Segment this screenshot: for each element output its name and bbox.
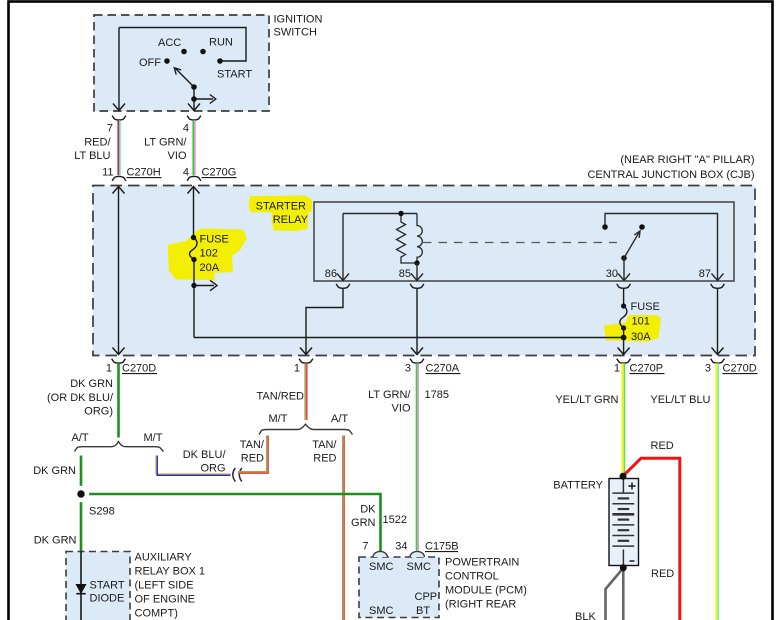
svg-text:11: 11	[102, 167, 113, 179]
svg-text:1785: 1785	[425, 389, 449, 401]
svg-text:CPP: CPP	[415, 591, 438, 603]
svg-text:102: 102	[200, 248, 218, 260]
battery plus terminal	[629, 483, 636, 490]
svg-text:BT: BT	[416, 605, 430, 617]
svg-text:IGNITION: IGNITION	[274, 14, 323, 26]
highlight FUSE 101	[604, 315, 661, 342]
svg-text:SMC: SMC	[407, 561, 432, 573]
battery minus terminal	[630, 560, 635, 562]
connector cup below CJB pin3 C270D right	[711, 359, 725, 363]
svg-text:TAN/RED: TAN/RED	[257, 391, 305, 403]
junction node fuse101 / feed	[621, 335, 627, 341]
start diode	[80, 552, 82, 620]
svg-text:LT GRN/: LT GRN/	[144, 137, 187, 149]
pin 30 wire	[623, 258, 625, 280]
svg-text:BATTERY: BATTERY	[553, 480, 603, 492]
node ACC	[181, 49, 187, 55]
relay coil side wiring	[343, 213, 417, 215]
svg-text:OFF: OFF	[139, 57, 161, 69]
svg-text:LT BLU: LT BLU	[74, 150, 110, 162]
wire RED battery feed	[624, 458, 680, 620]
svg-text:COMPT): COMPT)	[135, 608, 178, 620]
svg-text:LT GRN/: LT GRN/	[368, 389, 411, 401]
svg-text:RELAY BOX 1: RELAY BOX 1	[135, 566, 206, 578]
svg-text:CENTRAL JUNCTION BOX (CJB): CENTRAL JUNCTION BOX (CJB)	[587, 169, 754, 181]
svg-text:VIO: VIO	[168, 150, 187, 162]
fuse 102 branch wire	[193, 187, 195, 237]
svg-text:FUSE: FUSE	[200, 234, 229, 246]
battery negative node	[620, 564, 627, 571]
feed node	[191, 96, 197, 102]
wire LT GRN/VIO pin4 to C270G	[193, 120, 195, 175]
connector cup below relay pin 87	[711, 284, 725, 288]
highlight FUSE 102	[168, 229, 248, 281]
svg-text:3: 3	[705, 363, 711, 375]
svg-text:DK GRN: DK GRN	[70, 378, 113, 390]
battery positive node	[620, 473, 627, 480]
wire TAN/RED CJB pin1 to split	[305, 363, 307, 420]
svg-text:DK: DK	[360, 504, 376, 516]
svg-text:START: START	[90, 580, 125, 592]
svg-text:C270D: C270D	[723, 363, 757, 375]
node RUN	[200, 49, 206, 55]
fuse 101	[621, 303, 626, 308]
svg-text:SWITCH: SWITCH	[274, 27, 317, 39]
svg-text:85: 85	[399, 268, 411, 280]
arrow down pin 4 exit	[188, 104, 200, 111]
svg-text:1522: 1522	[383, 514, 407, 526]
svg-text:SMC: SMC	[369, 605, 394, 617]
svg-text:30: 30	[606, 268, 618, 280]
wire pin87 to C270D pin3	[717, 289, 719, 355]
svg-text:YEL/LT BLU: YEL/LT BLU	[650, 394, 710, 406]
PCM pin 7 bump	[373, 551, 387, 557]
svg-text:STARTER: STARTER	[256, 201, 306, 213]
svg-text:(OR DK BLU/: (OR DK BLU/	[47, 392, 114, 404]
svg-text:34: 34	[395, 541, 407, 553]
relay coil	[417, 214, 422, 264]
svg-text:POWERTRAIN: POWERTRAIN	[445, 557, 519, 569]
battery cells	[622, 479, 624, 494]
svg-text:START: START	[217, 69, 252, 81]
svg-text:101: 101	[632, 316, 650, 328]
svg-text:1: 1	[106, 363, 112, 375]
connector cup below CJB pin3 C270A	[410, 359, 424, 363]
connector cup below relay pin 30	[617, 284, 631, 288]
wire pin30 to fuse 101	[623, 289, 625, 307]
svg-text:1: 1	[614, 363, 620, 375]
svg-text:4: 4	[183, 123, 189, 135]
pin 86 wire	[342, 214, 344, 281]
svg-text:AUXILIARY: AUXILIARY	[135, 552, 193, 564]
connector dome above CJB pin 4 C270G	[187, 176, 201, 180]
svg-text:7: 7	[362, 541, 368, 553]
svg-text:ORG): ORG)	[84, 405, 113, 417]
PCM pin 34 bump	[410, 551, 424, 557]
wire TAN/RED M/T branch to connector	[238, 436, 268, 474]
wire LT GRN/VIO C270A to PCM pin34	[417, 363, 419, 550]
svg-text:CONTROL: CONTROL	[445, 571, 499, 583]
svg-text:20A: 20A	[200, 262, 220, 274]
connector cup below relay pin 86	[336, 284, 350, 288]
svg-text:(LEFT SIDE: (LEFT SIDE	[135, 580, 194, 592]
svg-text:YEL/LT GRN: YEL/LT GRN	[555, 394, 618, 406]
svg-text:86: 86	[325, 268, 337, 280]
svg-text:S298: S298	[89, 506, 115, 518]
wire DK GRN S298 to start diode	[80, 494, 83, 552]
auxiliary relay box 1	[66, 552, 130, 620]
svg-text:7: 7	[107, 123, 113, 135]
svg-text:RED/: RED/	[84, 137, 111, 149]
svg-text:87: 87	[699, 268, 711, 280]
svg-text:TAN/: TAN/	[240, 439, 265, 451]
ignition switch box	[94, 15, 269, 111]
svg-text:3: 3	[405, 363, 411, 375]
svg-text:DK GRN: DK GRN	[33, 465, 76, 477]
svg-text:RED: RED	[651, 440, 674, 452]
wire YEL/LT BLU C270D to bottom	[717, 363, 719, 620]
svg-text:C270P: C270P	[630, 363, 664, 375]
svg-text:M/T: M/T	[269, 413, 288, 425]
wire TAN/RED A/T branch down	[343, 436, 345, 620]
relay actuation dashed link	[423, 242, 617, 244]
svg-text:30A: 30A	[631, 331, 651, 343]
svg-text:GRN: GRN	[351, 517, 376, 529]
node START	[217, 58, 223, 64]
highlight STARTER RELAY	[249, 196, 313, 232]
relay resistor	[397, 214, 418, 264]
node S298	[73, 486, 89, 502]
pin 85 wire	[416, 263, 418, 280]
wire fuse102 to fuse101 horizontal	[194, 337, 624, 339]
CJB left feed wire C270H to C270D	[118, 187, 120, 354]
svg-text:4: 4	[183, 167, 189, 179]
connector cup below ignition pin 4	[187, 116, 201, 120]
split brace A/T-M/T left	[75, 442, 164, 452]
svg-text:DIODE: DIODE	[90, 593, 125, 605]
wire DK GRN S298 to PCM pin7	[81, 494, 381, 551]
connector cup below CJB pin1 C270D	[112, 359, 126, 363]
svg-text:RED: RED	[313, 453, 336, 465]
svg-text:ACC: ACC	[158, 37, 181, 49]
starter relay box	[314, 202, 734, 281]
svg-text:C270D: C270D	[122, 363, 156, 375]
svg-text:FUSE: FUSE	[631, 301, 660, 313]
svg-text:(RIGHT REAR: (RIGHT REAR	[445, 599, 516, 611]
svg-text:A/T: A/T	[331, 413, 348, 425]
svg-text:DK GRN: DK GRN	[34, 535, 77, 547]
relay switch	[605, 214, 718, 281]
svg-text:VIO: VIO	[392, 403, 411, 415]
svg-text:RELAY: RELAY	[273, 214, 309, 226]
wire DK BLU/ORG M/T branch	[156, 456, 231, 476]
svg-text:RUN: RUN	[209, 36, 233, 48]
svg-text:OF ENGINE: OF ENGINE	[135, 594, 196, 606]
wire DK GRN C270D to split	[117, 363, 120, 437]
svg-text:1: 1	[294, 363, 300, 375]
connector cup below relay pin 85	[410, 284, 424, 288]
svg-text:A/T: A/T	[72, 432, 89, 444]
connector cup below CJB pin1 (starter)	[299, 359, 313, 363]
svg-text:RED: RED	[651, 568, 674, 580]
connector dome above CJB pin 11 C270H	[112, 176, 126, 180]
wire RED/LT BLU pin7 to C270H	[118, 120, 120, 175]
svg-text:SMC: SMC	[369, 561, 394, 573]
svg-text:C270A: C270A	[426, 363, 460, 375]
svg-text:(NEAR RIGHT "A" PILLAR): (NEAR RIGHT "A" PILLAR)	[620, 154, 754, 166]
ignition switch lever	[176, 69, 195, 88]
arrow down pin 7 exit	[113, 104, 125, 111]
ignition internal wire	[119, 28, 246, 110]
svg-text:C175B: C175B	[425, 541, 459, 553]
wire YEL/LT GRN C270P to battery	[623, 363, 625, 475]
pin 87 arrow	[712, 274, 724, 281]
ignition feed arrow right	[194, 98, 213, 100]
svg-text:TAN/: TAN/	[312, 439, 337, 451]
connector cup below ignition pin 7	[112, 116, 126, 120]
split brace M/T-A/T right	[259, 424, 353, 434]
wire pin86 to C270 pin1	[306, 289, 343, 355]
wire DK GRN A/T branch	[80, 456, 83, 494]
svg-text:M/T: M/T	[144, 432, 163, 444]
svg-text:MODULE (PCM): MODULE (PCM)	[445, 585, 527, 597]
switch pivot node	[191, 84, 197, 90]
svg-text:C270H: C270H	[127, 167, 161, 179]
fuse 102 output node with arrow	[193, 260, 195, 338]
connector cup below CJB pin1 C270P	[617, 359, 631, 363]
svg-text:DK BLU/: DK BLU/	[183, 449, 227, 461]
wire BLK battery ground	[622, 568, 625, 620]
powertrain control module PCM box	[359, 557, 439, 618]
wire pin85 to C270A pin3	[416, 289, 418, 355]
fuse 102	[191, 235, 196, 240]
svg-text:C270G: C270G	[202, 167, 237, 179]
inline connector ((	[233, 468, 236, 482]
svg-text:RED: RED	[241, 453, 264, 465]
node OFF	[164, 58, 170, 64]
central junction box CJB	[93, 186, 755, 356]
svg-text:ORG: ORG	[200, 463, 225, 475]
svg-text:BLK: BLK	[575, 611, 596, 620]
